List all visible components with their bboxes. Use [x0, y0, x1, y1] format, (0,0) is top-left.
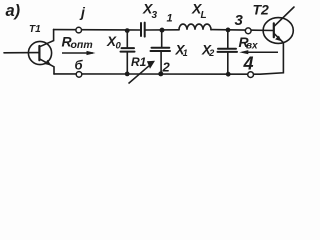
svg-text:R1: R1: [131, 55, 147, 69]
svg-text:T2: T2: [253, 1, 270, 17]
svg-text:2: 2: [208, 48, 214, 58]
svg-text:б: б: [75, 58, 84, 73]
svg-text:а): а): [6, 2, 21, 20]
svg-text:3: 3: [152, 10, 158, 21]
svg-text:опт: опт: [71, 39, 93, 51]
svg-text:вх: вх: [246, 41, 258, 52]
svg-text:0: 0: [116, 41, 122, 52]
svg-text:3: 3: [235, 12, 244, 29]
svg-text:L: L: [201, 10, 207, 21]
svg-text:4: 4: [243, 54, 254, 74]
svg-text:2: 2: [162, 60, 171, 75]
svg-text:T1: T1: [29, 24, 41, 35]
svg-text:1: 1: [183, 48, 188, 58]
svg-text:1: 1: [167, 13, 173, 25]
